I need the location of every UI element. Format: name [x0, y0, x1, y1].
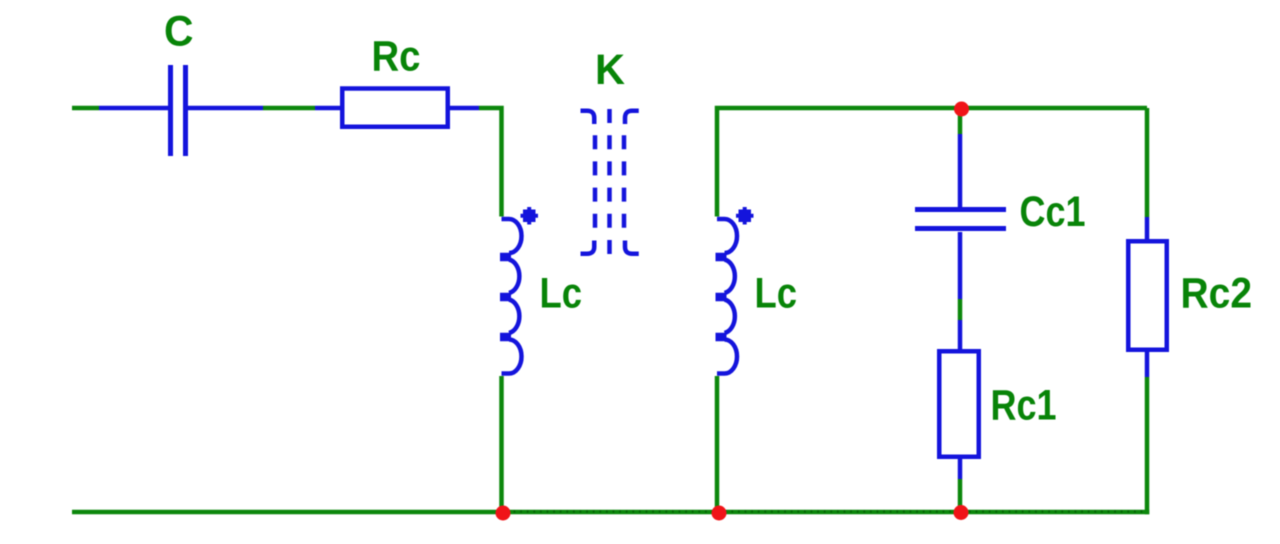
svg-text:Lc: Lc — [540, 271, 583, 318]
svg-text:Rc: Rc — [372, 34, 421, 81]
svg-text:C: C — [164, 9, 194, 56]
svg-text:Lc: Lc — [755, 271, 798, 318]
svg-text:Rc1: Rc1 — [991, 383, 1057, 430]
svg-text:Rc2: Rc2 — [1181, 271, 1253, 318]
svg-text:K: K — [595, 47, 625, 94]
svg-text:Cc1: Cc1 — [1020, 189, 1086, 236]
